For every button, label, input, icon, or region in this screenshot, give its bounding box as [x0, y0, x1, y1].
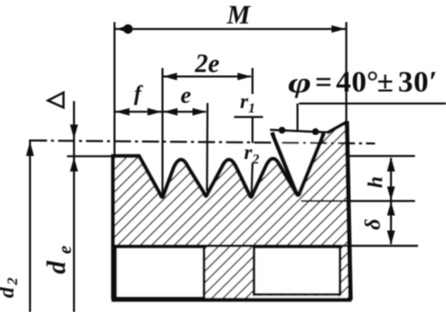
h bottom arrow: [387, 187, 395, 201]
slot right (white): [254, 247, 340, 295]
h top arrow: [387, 157, 395, 172]
delta dim bottom arrow: [387, 231, 395, 246]
M left extension line: [114, 22, 116, 157]
delta dim top arrow: [387, 202, 395, 216]
bottom edge of body: [112, 298, 352, 302]
shelf line extension right: [341, 245, 418, 247]
root line extension right: [301, 200, 415, 202]
extension line at third valley (upper piece): [252, 68, 254, 94]
right edge of body: [347, 121, 351, 300]
e left arrow: [164, 108, 178, 116]
svg-text:φ: φ: [288, 66, 311, 98]
extension line at first valley: [162, 68, 164, 194]
f right arrow: [148, 108, 162, 116]
r1 bracket line: [234, 116, 263, 118]
2e right arrow: [238, 73, 252, 81]
enlarged groove right flank: [300, 133, 324, 192]
f left arrow: [116, 108, 130, 116]
d2 corner tick to centerline: [29, 140, 47, 142]
surface from groove to right corner: [327, 123, 346, 134]
M right arrow: [332, 25, 346, 33]
2e dimension line: [163, 76, 251, 78]
body outline: left edge + thread profile teeth: [113, 156, 300, 299]
e right arrow: [193, 108, 207, 116]
phi leader drop: [297, 104, 299, 131]
d2 dimension line far left: [29, 140, 31, 312]
enlarged groove left flank: [272, 133, 300, 196]
d2 top arrow pointing up: [26, 142, 34, 157]
crest line extension left: [67, 155, 113, 157]
2e left arrow: [163, 73, 177, 81]
hatched body silhouette: [113, 122, 350, 299]
M dot at left arrow: [123, 24, 133, 34]
svg-text:M: M: [226, 1, 251, 30]
extension line at third valley (middle piece): [252, 117, 254, 143]
M right extension line: [345, 22, 347, 121]
dot left on groove edge: [279, 127, 286, 134]
svg-text:δ: δ: [360, 219, 385, 230]
phi leader horizontal: [299, 103, 446, 105]
M left arrow: [116, 25, 130, 33]
extension line at second valley: [206, 103, 209, 191]
dot right on groove edge: [312, 128, 319, 135]
shelf line (top of slots) across body: [113, 245, 341, 248]
svg-text:2e: 2e: [194, 49, 220, 78]
h dimension line: [390, 158, 392, 244]
Delta symbol triangle: [48, 93, 64, 108]
slot left (white): [116, 247, 205, 298]
gap top arrow pointing down: [70, 125, 78, 140]
centerline dash-dot: [30, 141, 375, 144]
M dimension line: [115, 28, 346, 30]
groove top edge: [270, 130, 330, 133]
extension line at third valley (lower piece): [252, 163, 253, 196]
svg-text:h: h: [363, 176, 387, 188]
white interior of enlarged V-groove: [274, 136, 320, 194]
svg-text:e: e: [181, 83, 192, 109]
crest line extension right: [347, 155, 415, 157]
gap bottom arrow pointing up: [70, 157, 78, 172]
white gap under right slot: [256, 296, 339, 299]
d_e dimension line: [73, 101, 75, 312]
f/e dimension line: [115, 111, 206, 113]
